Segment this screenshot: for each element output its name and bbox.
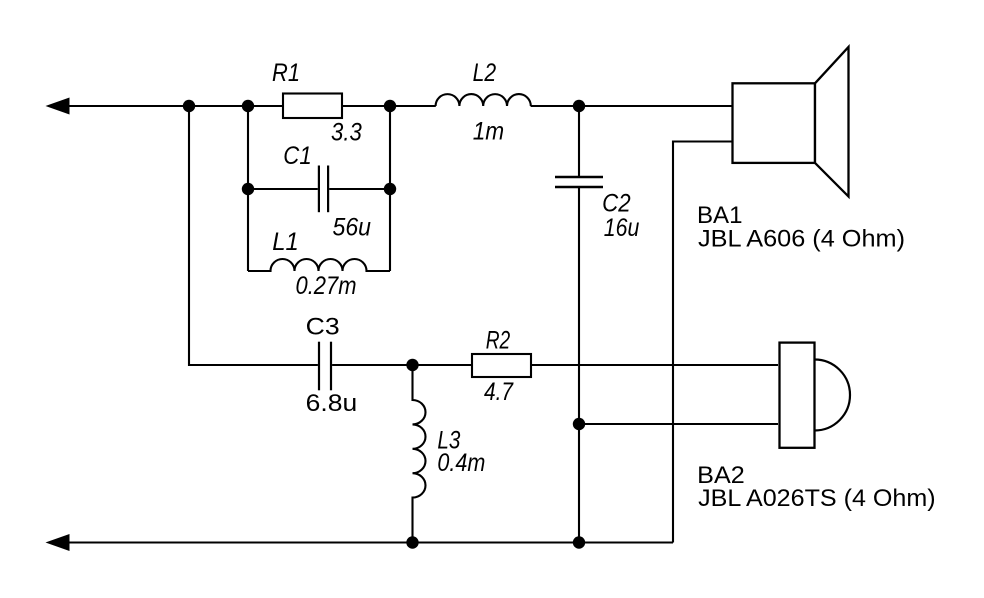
svg-text:R1: R1: [272, 59, 300, 87]
node L3 bottom: [406, 536, 418, 548]
svg-text:6.8u: 6.8u: [306, 390, 358, 417]
inductor L3: [413, 365, 426, 543]
wire middle rail: [332, 364, 778, 366]
capacitor C1: [248, 166, 390, 213]
inductor L2: [436, 94, 531, 106]
node C1 right: [384, 183, 396, 195]
svg-text:L1: L1: [272, 228, 299, 256]
node top-left junction: [183, 100, 195, 112]
tweeter BA2: [780, 343, 850, 448]
capacitor C2: [555, 177, 603, 187]
svg-text:JBL A606 (4 Ohm): JBL A606 (4 Ohm): [698, 225, 905, 252]
wire bottom rail: [52, 541, 673, 543]
svg-text:C1: C1: [283, 142, 311, 170]
node C2 bottom: [573, 536, 585, 548]
wire left vertical: [189, 106, 318, 365]
svg-text:16u: 16u: [604, 214, 640, 242]
node R1 right: [384, 100, 396, 112]
arrowhead top-left input: [47, 98, 69, 114]
resistor R1: [283, 94, 342, 119]
arrowhead bottom-left input: [47, 535, 69, 551]
inductor L1: [248, 259, 390, 271]
node C2 / BA2 branch: [573, 418, 585, 430]
svg-text:4.7: 4.7: [484, 378, 514, 406]
node R1 left: [242, 100, 254, 112]
wire R1 branch right vertical: [389, 106, 391, 271]
node L3 top: [406, 359, 418, 371]
loudspeaker BA1: [733, 47, 849, 197]
wire BA2 lower terminal: [579, 423, 778, 425]
wire C2 vertical: [578, 106, 580, 177]
svg-text:C3: C3: [306, 314, 340, 341]
svg-text:R2: R2: [486, 327, 511, 355]
wire BA1 lower terminal: [673, 142, 732, 543]
svg-text:56u: 56u: [333, 214, 372, 242]
svg-text:0.4m: 0.4m: [437, 449, 485, 477]
wire R1 branch left vertical: [247, 106, 249, 271]
svg-text:L2: L2: [473, 59, 497, 87]
node C1 left: [242, 183, 254, 195]
svg-text:1m: 1m: [473, 118, 505, 146]
svg-text:JBL A026TS (4 Ohm): JBL A026TS (4 Ohm): [698, 485, 936, 512]
node L2 right / C2 top: [573, 100, 585, 112]
wire top rail left: [52, 105, 436, 107]
svg-text:0.27m: 0.27m: [296, 272, 357, 300]
svg-text:3.3: 3.3: [331, 119, 362, 147]
wire top rail right: [531, 105, 732, 107]
capacitor C3: [319, 342, 331, 391]
resistor R2: [472, 354, 531, 377]
